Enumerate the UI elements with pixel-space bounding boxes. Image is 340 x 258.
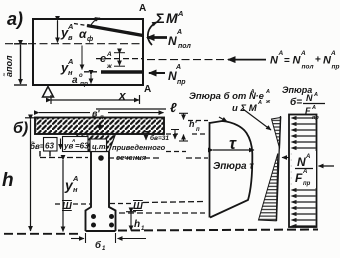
svg-text:τ: τ	[229, 134, 237, 153]
svg-text:н: н	[73, 185, 78, 194]
svg-text:а): а)	[7, 9, 23, 29]
flange haunch	[76, 134, 116, 152]
svg-text:N: N	[297, 155, 306, 169]
centroid dash-dot axis of panel a	[5, 43, 143, 45]
svg-text:А: А	[311, 105, 316, 111]
svg-text:б̃в=: б̃в=	[30, 142, 45, 151]
svg-text:А: А	[300, 50, 306, 57]
svg-text:б: б	[95, 240, 102, 251]
strand dots	[91, 214, 96, 219]
svg-text:пр: пр	[177, 79, 186, 86]
svg-text:А: А	[313, 92, 318, 98]
dimension h	[30, 120, 32, 232]
x dimension	[51, 99, 139, 101]
svg-text:F: F	[295, 171, 303, 185]
dashed N line inside rect	[96, 58, 143, 60]
force N_pr arrow	[149, 72, 165, 74]
svg-text:63: 63	[45, 142, 54, 151]
angle arc arrow	[90, 18, 100, 27]
dimension h_1	[130, 213, 132, 231]
svg-text:о: о	[79, 73, 83, 79]
force N_pol arrow	[147, 36, 167, 39]
svg-text:А: А	[176, 29, 182, 36]
svg-text:А: А	[67, 22, 73, 31]
right side arrow	[319, 165, 335, 167]
svg-text:Эпюра б от N: Эпюра б от N	[189, 91, 257, 102]
dashed level line flange bottom	[166, 133, 178, 135]
svg-text:б): б)	[13, 120, 28, 137]
dimension a_pol (left rotated)	[14, 44, 27, 85]
svg-text:h: h	[2, 170, 14, 191]
svg-text:N: N	[168, 69, 177, 83]
svg-text:N: N	[168, 34, 177, 48]
svg-text:Ш: Ш	[133, 201, 143, 212]
sigma top wedge	[272, 118, 281, 149]
small dot in flange	[98, 124, 102, 128]
centroid dashed line	[40, 157, 88, 159]
flange thickness h'_p dimension	[179, 113, 188, 141]
leader to sigma diagram	[243, 109, 271, 130]
svg-text:приведенного: приведенного	[112, 143, 166, 152]
small arrow	[60, 139, 62, 150]
bottom bulb level dashed	[119, 212, 205, 214]
flange width dimension v'_p	[39, 112, 90, 114]
tiny ticks below labels	[39, 151, 41, 157]
uniform stress rectangle N/F hatch	[295, 117, 316, 119]
svg-text:h: h	[134, 219, 140, 230]
svg-text:α: α	[79, 27, 87, 41]
svg-text:сечения: сечения	[116, 153, 147, 162]
svg-text:+: +	[315, 55, 321, 66]
tau diagram curve	[210, 121, 253, 218]
svg-text:ф: ф	[87, 36, 93, 43]
svg-text:М: М	[166, 10, 178, 26]
svg-text:А: А	[106, 51, 112, 58]
sigma bowtie zero axis	[277, 116, 281, 221]
svg-text:=63: =63	[75, 142, 89, 151]
svg-text:а̃пол: а̃пол	[3, 55, 14, 77]
sigma bottom wedge	[259, 154, 278, 221]
svg-text:=: =	[284, 56, 290, 67]
svg-text:ц.т.: ц.т.	[92, 142, 108, 151]
svg-text:в: в	[68, 33, 73, 42]
label box N/F	[292, 151, 317, 188]
sloped prestress tendon (draped)	[74, 24, 87, 26]
svg-text:А: А	[67, 57, 73, 66]
svg-text:и Σ М: и Σ М	[232, 103, 258, 114]
top flange (hatched)	[35, 118, 164, 135]
web of the beam	[86, 152, 116, 232]
svg-text:А: А	[250, 89, 255, 95]
svg-text:А: А	[72, 174, 78, 183]
svg-text:А: А	[177, 9, 183, 18]
svg-text:Σ: Σ	[156, 10, 164, 26]
uniform stress rectangle outline	[289, 115, 317, 228]
svg-text:пр: пр	[80, 81, 88, 88]
small arrow at neutral level	[282, 157, 289, 159]
svg-text:1: 1	[102, 246, 106, 252]
l mark	[96, 108, 166, 110]
svg-text:пр: пр	[303, 181, 311, 187]
small arrow	[89, 139, 91, 150]
svg-text:е: е	[100, 53, 106, 65]
svg-text:ж: ж	[265, 99, 271, 105]
svg-text:А: А	[305, 154, 310, 160]
svg-text:А: А	[175, 64, 181, 71]
beam side-view rectangle	[33, 19, 143, 85]
dimension y_v	[57, 21, 59, 43]
tau double arrow	[213, 149, 254, 151]
svg-text:пол: пол	[178, 43, 192, 50]
svg-text:ж: ж	[106, 63, 113, 70]
equation N^A = N^A_pol + N^A_pr	[270, 50, 339, 71]
dimension y_n (panel b)	[62, 160, 64, 232]
svg-text:N: N	[306, 93, 313, 103]
svg-text:А: А	[144, 84, 151, 95]
centroid dot	[98, 155, 104, 161]
small dim arrows near flange right	[143, 131, 149, 133]
y_n small dimension arrow	[81, 46, 83, 70]
tau diagram axis	[209, 122, 211, 218]
svg-text:пол: пол	[302, 64, 314, 71]
bottom dash-dot baselines	[4, 233, 82, 235]
svg-text:А: А	[265, 89, 270, 95]
svg-text:Ш: Ш	[62, 201, 72, 212]
svg-text:бв=31: бв=31	[150, 134, 169, 142]
svg-text:ℓ: ℓ	[170, 100, 177, 115]
label ts.t. (centroid) boxed	[90, 139, 107, 152]
svg-text:х: х	[118, 89, 127, 103]
dimension b_1	[71, 233, 146, 243]
svg-text:а: а	[72, 75, 78, 86]
svg-text:А: А	[139, 3, 146, 14]
svg-text:А: А	[302, 169, 307, 175]
svg-text:п: п	[196, 127, 200, 133]
e dimension arrows	[114, 53, 125, 66]
moment arc sum M^A	[148, 22, 157, 45]
svg-text:А: А	[330, 50, 336, 57]
svg-text:А: А	[257, 100, 262, 106]
straight bottom tendon	[84, 71, 100, 73]
svg-text:Эпюра τ: Эпюра τ	[213, 161, 254, 172]
dashed line at level III	[55, 203, 61, 205]
support triangle	[43, 87, 54, 98]
svg-text:пр: пр	[332, 64, 340, 71]
svg-text:А: А	[278, 50, 284, 57]
dashed level line flange top	[188, 120, 208, 122]
a0_pr tiny arrow	[90, 75, 92, 84]
dash-dot resultant line and arrow	[147, 59, 224, 61]
label y_v=63 boxed	[63, 137, 89, 152]
svg-text:б=: б=	[290, 96, 302, 108]
